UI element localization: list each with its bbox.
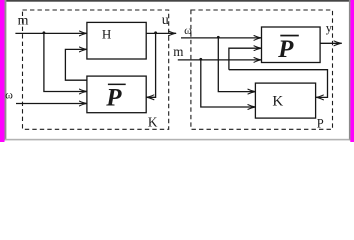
svg-text:K: K: [272, 94, 283, 110]
wire P-bar left output to H input 2: [65, 49, 87, 80]
wire u feedback to P-bar left right-side input: [146, 33, 155, 97]
svg-text:m: m: [18, 13, 29, 28]
magenta right border bar: [350, 0, 354, 142]
node junction omega right: [217, 36, 220, 39]
svg-text:u: u: [162, 13, 169, 28]
frame left gray line: [5, 0, 7, 140]
svg-text:ω: ω: [5, 88, 13, 102]
wire omega branch to K input 1: [218, 38, 255, 92]
svg-text:P: P: [277, 36, 294, 63]
svg-text:m: m: [173, 45, 183, 60]
dashed box K (left diagram): [23, 10, 169, 129]
wire m input left: [15, 32, 87, 34]
wire y output: [320, 42, 341, 44]
wire omega input right: [181, 37, 262, 39]
wire m input right: [178, 59, 262, 61]
svg-text:P: P: [105, 85, 122, 112]
svg-text:K: K: [148, 115, 158, 130]
wire m branch to K input 2: [201, 60, 256, 107]
wire H output u: [146, 32, 176, 34]
node junction m left: [43, 31, 46, 34]
wire m branch to P-bar left input 1: [44, 33, 87, 91]
node junction u: [154, 31, 157, 34]
svg-text:P: P: [317, 117, 324, 131]
block H: [87, 22, 146, 59]
svg-text:H: H: [102, 26, 111, 41]
wire feedback up into P-bar right input 2: [229, 48, 262, 69]
dashed box P (right diagram): [191, 10, 333, 129]
overbar of P-bar right: [280, 35, 299, 37]
frame right gray line: [349, 0, 351, 140]
svg-text:ω: ω: [184, 23, 192, 37]
node junction m right: [199, 58, 202, 61]
magenta left border bar: [0, 0, 5, 142]
frame bottom light gray line: [5, 139, 350, 141]
frame top dark line: [5, 0, 351, 2]
svg-text:y: y: [326, 21, 333, 35]
overbar of P-bar left: [108, 84, 126, 86]
wire long feedback to K right-side input: [229, 70, 328, 98]
block P-bar left: [87, 76, 146, 113]
wire omega input left: [16, 103, 87, 105]
block P-bar right: [262, 27, 321, 63]
block K (right diagram): [255, 83, 315, 118]
